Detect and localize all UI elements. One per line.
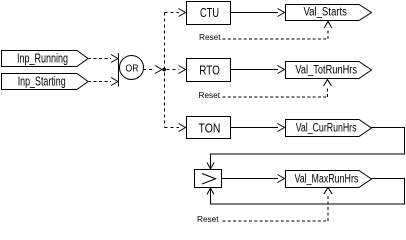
svg-text:Inp_Running: Inp_Running <box>17 51 68 65</box>
svg-text:Reset: Reset <box>197 214 219 224</box>
svg-text:Val_MaxRunHrs: Val_MaxRunHrs <box>294 173 358 185</box>
svg-text:OR: OR <box>126 64 139 75</box>
svg-text:Inp_Starting: Inp_Starting <box>18 74 66 88</box>
svg-text:Val_CurRunHrs: Val_CurRunHrs <box>296 122 357 134</box>
svg-text:RTO: RTO <box>199 64 220 78</box>
svg-text:TON: TON <box>199 122 221 136</box>
svg-text:Reset: Reset <box>199 32 221 42</box>
svg-text:Val_TotRunHrs: Val_TotRunHrs <box>295 64 357 76</box>
svg-text:CTU: CTU <box>200 6 219 20</box>
svg-text:Reset: Reset <box>199 90 221 100</box>
svg-text:Val_Starts: Val_Starts <box>303 7 347 19</box>
